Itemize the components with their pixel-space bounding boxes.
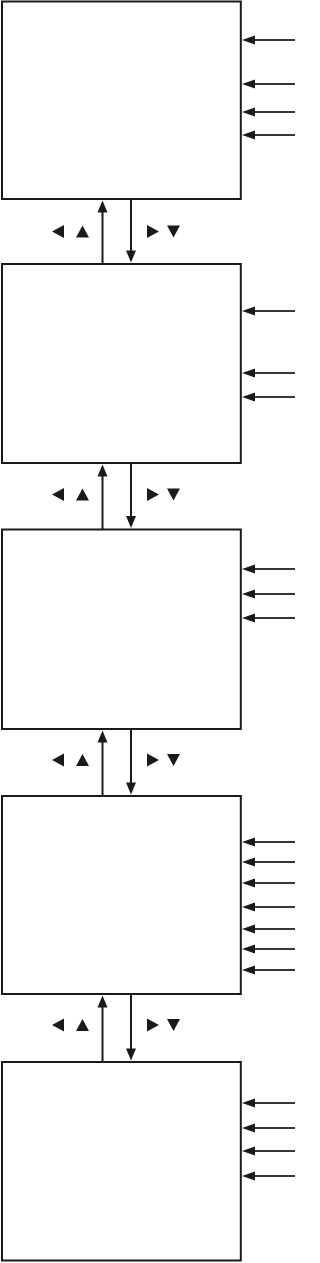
down arrow connector gap 1 bbox=[130, 199, 132, 252]
incoming arrow 1 to box 1 bbox=[254, 39, 295, 41]
left-triangle button symbol gap 4 bbox=[52, 1019, 64, 1032]
incoming arrow 2 to box 4 bbox=[254, 861, 295, 863]
incoming arrow 4 to box 5 bbox=[254, 1175, 295, 1177]
left-triangle button symbol gap 2 bbox=[52, 488, 64, 501]
up arrow connector gap 1 bbox=[102, 211, 104, 264]
incoming arrow 2 to box 5 bbox=[254, 1127, 295, 1129]
up-triangle button symbol gap 4 bbox=[76, 1019, 89, 1031]
up arrow connector gap 4 bbox=[102, 1006, 104, 1062]
up arrow connector gap 3 bbox=[102, 741, 104, 796]
menu screen box 4 bbox=[2, 796, 241, 994]
incoming arrow 2 to box 3 bbox=[254, 593, 295, 595]
down-triangle button symbol gap 3 bbox=[167, 754, 180, 766]
incoming arrow 2 to box 2 bbox=[254, 372, 295, 374]
down arrow connector gap 3 bbox=[130, 729, 132, 784]
down-triangle button symbol gap 2 bbox=[167, 489, 180, 501]
up-triangle button symbol gap 3 bbox=[76, 754, 89, 766]
incoming arrow 3 to box 1 bbox=[254, 111, 295, 113]
down arrow connector gap 2 bbox=[130, 463, 132, 518]
incoming arrow 1 to box 5 bbox=[254, 1102, 295, 1104]
down-triangle button symbol gap 1 bbox=[167, 226, 180, 238]
right-triangle button symbol gap 4 bbox=[147, 1019, 159, 1032]
right-triangle button symbol gap 2 bbox=[147, 488, 159, 501]
incoming arrow 3 to box 5 bbox=[254, 1150, 295, 1152]
right-triangle button symbol gap 1 bbox=[147, 225, 159, 238]
incoming arrow 1 to box 3 bbox=[254, 568, 295, 570]
up arrow connector gap 2 bbox=[102, 475, 104, 530]
menu screen box 2 bbox=[2, 264, 241, 463]
down-triangle button symbol gap 4 bbox=[167, 1019, 180, 1031]
menu screen box 5 bbox=[2, 1062, 241, 1261]
down arrow connector gap 4 bbox=[130, 994, 132, 1050]
menu screen box 3 bbox=[2, 530, 241, 730]
incoming arrow 3 to box 2 bbox=[254, 396, 295, 398]
incoming arrow 1 to box 2 bbox=[254, 310, 295, 312]
incoming arrow 2 to box 1 bbox=[254, 83, 295, 85]
incoming arrow 3 to box 3 bbox=[254, 617, 295, 619]
incoming arrow 6 to box 4 bbox=[254, 948, 295, 950]
incoming arrow 5 to box 4 bbox=[254, 928, 295, 930]
left-triangle button symbol gap 3 bbox=[52, 754, 64, 767]
incoming arrow 7 to box 4 bbox=[254, 969, 295, 971]
incoming arrow 4 to box 1 bbox=[254, 134, 295, 136]
right-triangle button symbol gap 3 bbox=[147, 754, 159, 767]
incoming arrow 1 to box 4 bbox=[254, 841, 295, 843]
incoming arrow 3 to box 4 bbox=[254, 882, 295, 884]
menu screen box 1 bbox=[2, 2, 241, 200]
left-triangle button symbol gap 1 bbox=[52, 225, 64, 238]
up-triangle button symbol gap 2 bbox=[76, 489, 89, 501]
incoming arrow 4 to box 4 bbox=[254, 906, 295, 908]
up-triangle button symbol gap 1 bbox=[76, 226, 89, 238]
